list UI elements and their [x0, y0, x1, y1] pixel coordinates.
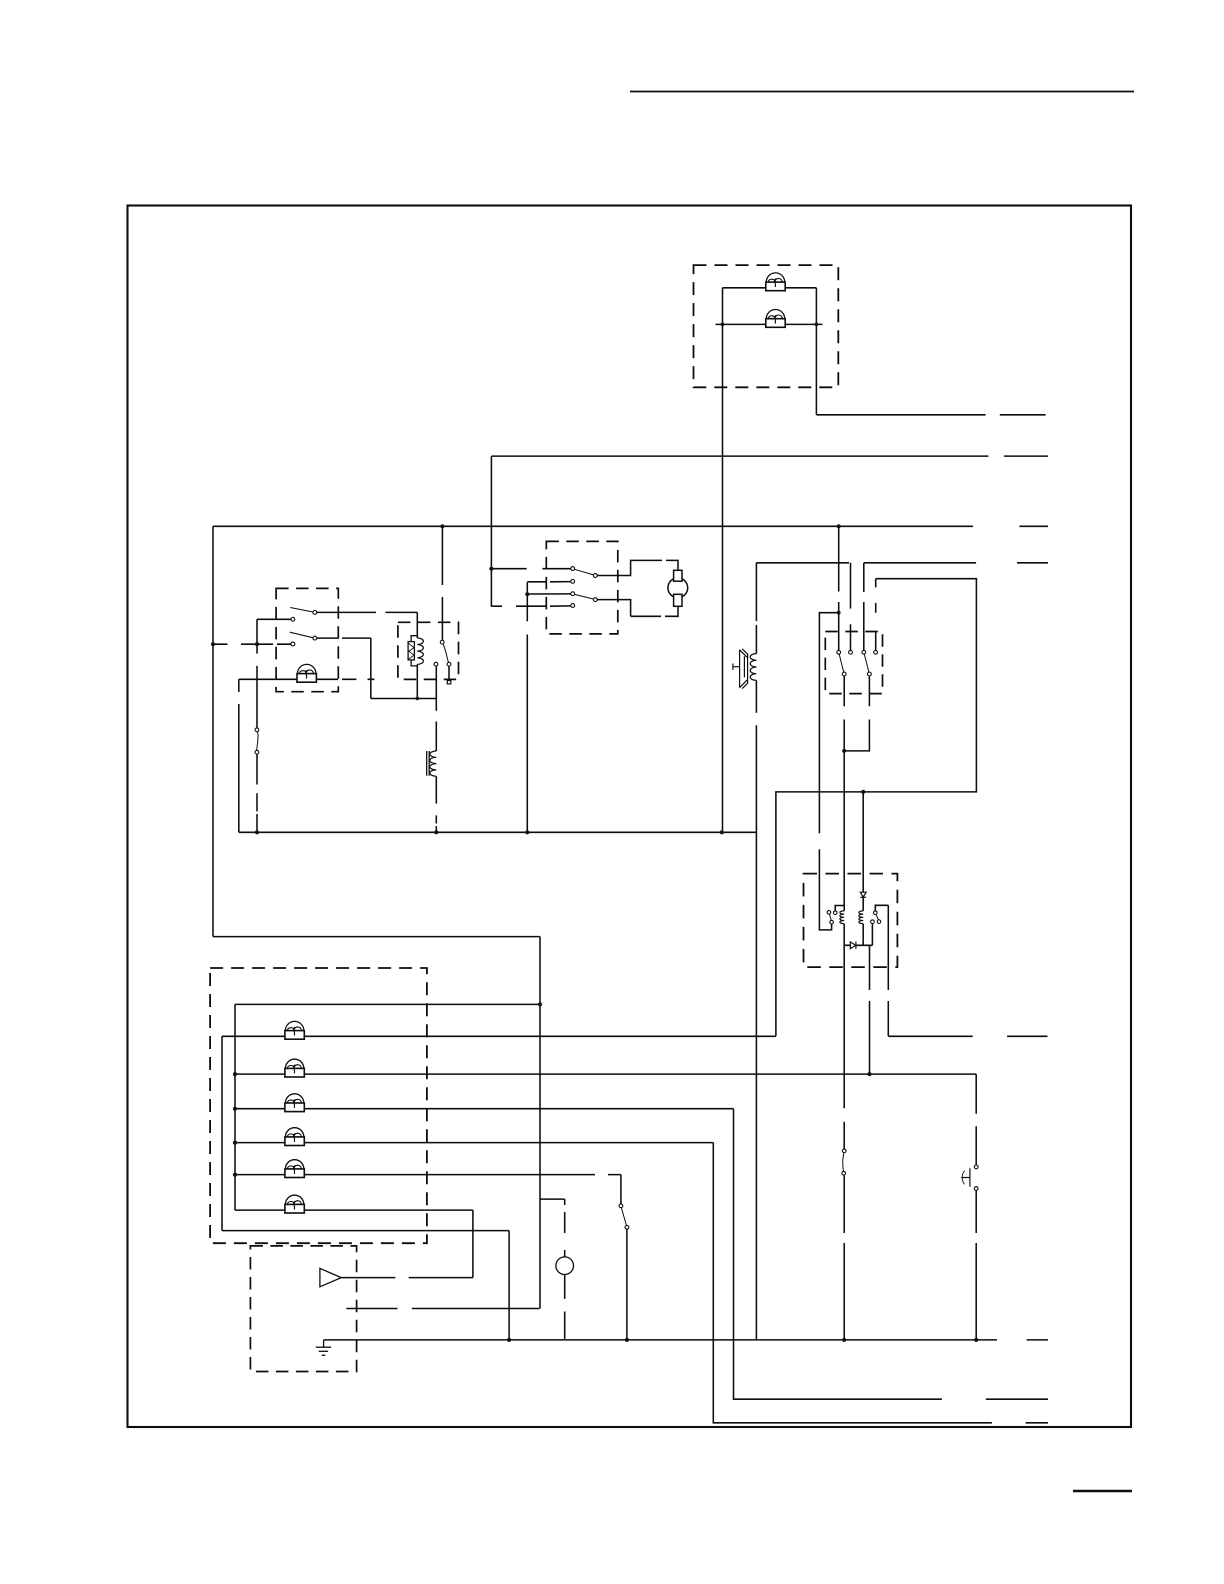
switch S2 lower contact	[255, 750, 259, 754]
wire: motor switch contact 2 feed	[527, 581, 570, 583]
node: junction row3 / relay feed	[440, 524, 444, 528]
wire: vertical drop from row 2 to motor switch feed	[490, 456, 492, 606]
wire: continuation stub row 3	[1019, 525, 1048, 527]
wire: lamp wire 4 drop and run to connector	[734, 1109, 942, 1400]
flasher right moving contact	[871, 920, 875, 924]
node: junction row3 / contact box feed	[837, 524, 841, 528]
ground symbol	[316, 1340, 331, 1355]
contact blade A	[839, 654, 844, 672]
wire: flasher output right leg down	[887, 905, 889, 1036]
wire: loop bus of flasher rectangle	[776, 579, 977, 1037]
wire: lower distribution bus	[239, 831, 757, 833]
flasher coil L2	[859, 911, 863, 924]
footer rule	[1073, 1490, 1132, 1492]
wire: contact 2/3 link vertical then return to bus	[526, 582, 528, 832]
wire: diode row up to right moving contact	[871, 924, 873, 946]
relay K1 second lower contact	[434, 662, 438, 666]
wire: S1B fixed contact feed from left bus (faded dashes)	[213, 643, 291, 645]
wire: cluster left bus A	[234, 1004, 236, 1210]
switch S4 blade	[843, 1153, 844, 1172]
wire: blade A to motor top	[597, 560, 678, 575]
switch S3 fixed contact 1	[571, 567, 575, 571]
directional contact dashed enclosure	[825, 632, 882, 694]
switch S3 blade B contact	[593, 598, 597, 602]
contact blade C output	[868, 672, 872, 676]
amplifier A1 triangle	[320, 1268, 341, 1286]
wire: bottom common bus	[324, 1339, 997, 1341]
node: junction bus A / wire 6	[233, 1173, 237, 1177]
switch S4 lower contact	[842, 1171, 846, 1175]
wire: left bus vertical	[212, 526, 214, 936]
contact blade A output	[842, 672, 846, 676]
node: junction A drop / branch to coil line	[837, 611, 841, 615]
node: junction bus A / wire 4	[233, 1107, 237, 1111]
wire: flasher pilot leg down to turn bus	[869, 945, 871, 1074]
node: junction bus A / wire 3	[233, 1072, 237, 1076]
wire: continuation stub flasher output	[1007, 1035, 1047, 1037]
gauge G1 body	[556, 1257, 574, 1275]
wire: lamp wire 4	[235, 1108, 734, 1110]
wire: transformer primary lead	[435, 699, 437, 752]
flasher right pivot contact	[874, 911, 878, 915]
switch S2 blade	[257, 732, 258, 751]
wire: top lamp branch upper	[723, 287, 817, 289]
wire: contact D drop	[875, 579, 877, 651]
node: left junction on lower lamp branch	[721, 323, 725, 327]
wire: horn button to bottom bus	[975, 1190, 977, 1340]
wire: continuation stub wire 5	[1026, 1422, 1048, 1424]
wire: continuation stub row 4	[1017, 562, 1048, 564]
flasher right lower contact	[877, 920, 881, 924]
wire: lamp wire 6 drop to switch S6	[620, 1175, 622, 1204]
wire: motor switch contact 4 feed	[491, 605, 570, 607]
relay K1 coil winding	[417, 638, 423, 665]
motor B1 body	[668, 578, 688, 598]
wire: flasher load leg down (L1 line) with hop gaps	[843, 945, 845, 1149]
switch S3 fixed contact 4	[571, 604, 575, 608]
wire: flasher output to connector row	[888, 1035, 972, 1037]
wire: S1A output to relay K1 coil	[317, 611, 418, 613]
flasher diode CR2 (pointing right)	[850, 942, 856, 949]
gauge branch tee from instrument feed	[540, 1199, 565, 1257]
flasher left coil-side contact	[833, 911, 837, 915]
wire: vertical feed with panel switch S2	[256, 619, 258, 728]
switch S1B fixed contact	[291, 642, 295, 646]
lamp DS7 (cluster lamp 4)	[285, 1128, 304, 1146]
switch S3 blade A	[575, 569, 594, 575]
wire: panel lamp branch	[239, 678, 375, 680]
node: junction wire 8 drop / bottom bus	[507, 1338, 511, 1342]
node: junction bus / motor switch return	[525, 830, 529, 834]
wire: S1B output run	[317, 637, 371, 639]
wire: relay upper contact feed from row 3	[441, 526, 443, 640]
lamp DS4 (cluster lamp 1)	[285, 1021, 304, 1039]
wire: relay coil top lead	[416, 612, 418, 638]
lamp DS2 (lower clearance lamp)	[766, 310, 785, 328]
node: junction bus / lamp box vertical	[720, 830, 724, 834]
contact A fixed	[837, 650, 841, 654]
light switch dashed enclosure S1	[276, 588, 338, 691]
wire: S1B output drop	[370, 638, 372, 698]
lamp DS8 (cluster lamp 5)	[285, 1160, 304, 1178]
wire: amplifier auxiliary output	[346, 1308, 539, 1310]
wire: cluster left bus B	[221, 1036, 223, 1230]
switch S6 lower contact	[625, 1225, 629, 1229]
node: junction on feed drop	[489, 567, 493, 571]
header rule	[630, 91, 1134, 93]
wire: panel lamp drop to bus corner	[238, 679, 240, 832]
flasher left points: pivot contact	[827, 911, 831, 915]
switch S3 blade A contact	[593, 574, 597, 578]
node: junction S6 line / bottom bus	[625, 1338, 629, 1342]
switch S4 upper contact	[842, 1149, 846, 1153]
wire: feed line row 2	[491, 455, 988, 457]
wire: coil-side contact link to L1 top	[835, 906, 844, 911]
wire: blade C output drop and tie	[844, 676, 869, 751]
lamp DS3 (panel lamp)	[297, 664, 316, 682]
relay K1 terminal stud	[447, 681, 451, 684]
flasher right points blade	[876, 914, 879, 920]
node: junction bus A / wire 5	[233, 1141, 237, 1145]
wire: contact to terminal stud	[448, 666, 450, 680]
contact B fixed	[849, 650, 853, 654]
wire: lamp wire 8	[222, 1230, 509, 1232]
node: junction coil lead / transformer link	[416, 697, 420, 701]
relay K1 dashed enclosure	[398, 622, 459, 679]
switch S1A moving contact	[313, 611, 317, 615]
node: junction loop bus / flasher feed	[861, 790, 865, 794]
wire: blade A output drop	[843, 676, 845, 751]
wire: combined output down into flasher coil L1	[843, 751, 845, 911]
node: junction left bus / S1B feed	[211, 642, 215, 646]
switch S3 blade B	[575, 594, 594, 599]
node: junction bus / transformer lead	[434, 830, 438, 834]
wire: contact box feed A drop	[838, 526, 840, 650]
node: junction lamp wire 1 end	[538, 1002, 542, 1006]
relay K1 core (rect with chevrons)	[408, 636, 417, 666]
relay K1 blade	[443, 644, 448, 662]
motor B1 lower brush terminal	[674, 594, 682, 606]
wire: continuation stub row 2	[1004, 455, 1048, 457]
wire: contact box feed C drop	[863, 563, 865, 651]
schematic border frame	[128, 206, 1132, 1428]
wire: horn feed horizontal (right segment)	[864, 562, 976, 564]
wire: coil L2 lower lead	[862, 924, 864, 946]
transformer T1 core bars	[426, 751, 428, 776]
wire: lamp wire 7	[235, 1209, 473, 1211]
lamp DS5 (cluster lamp 2)	[285, 1059, 304, 1077]
horn H1 coil	[750, 654, 756, 681]
wire: blade B to motor bottom	[597, 600, 678, 617]
wire: horizontal run to instrument feed	[213, 936, 540, 938]
lamp DS1 (upper clearance lamp)	[766, 273, 785, 291]
node: right junction on lower lamp branch	[815, 323, 819, 327]
wire: lamp wire 6	[235, 1174, 621, 1176]
flasher unit dashed enclosure K2	[804, 874, 898, 968]
wire: S4 to bottom bus	[843, 1175, 845, 1340]
wire: continuation stub wire 4	[986, 1398, 1048, 1400]
node: junction S2 line / bus	[255, 830, 259, 834]
node: junction S2 line / S1B feed	[255, 642, 259, 646]
instrument cluster dashed enclosure	[210, 968, 427, 1243]
switch S6 blade	[621, 1208, 626, 1226]
wire: right pivot link to output	[875, 905, 888, 911]
wire: lamp wire 8 drop to bottom bus	[508, 1231, 510, 1340]
wire: diode row	[844, 944, 872, 946]
wire: second contact down to transformer	[435, 666, 437, 698]
flasher left points blade	[830, 914, 832, 920]
pushbutton S5 lower contact	[974, 1187, 978, 1191]
wire: contact box feed B drop	[850, 563, 852, 651]
wire: lamp box right vertical down to feed line	[815, 288, 817, 415]
switch S1B moving contact	[313, 636, 317, 640]
wire: S2 lower contact down to bus	[256, 754, 258, 832]
switch S1A upper blade	[290, 608, 313, 613]
wire: main horizontal bus row 3	[213, 525, 973, 527]
pushbutton S5 upper contact	[974, 1165, 978, 1169]
wire: horn lower lead down to bottom bus	[755, 680, 757, 1340]
wire: continuation stub bottom bus	[1027, 1339, 1048, 1341]
wire: diode to coil L2	[862, 897, 864, 911]
node: junction contact3 branch	[525, 592, 529, 596]
lamp DS6 (cluster lamp 3)	[285, 1094, 304, 1112]
pushbutton S5 actuator	[961, 1168, 970, 1186]
switch S1A fixed contact	[291, 617, 295, 621]
clearance lamp assembly dashed enclosure	[694, 265, 839, 387]
node: junction blade outputs	[842, 749, 846, 753]
switch S6 upper contact	[619, 1204, 623, 1208]
wire: branch from A to flasher switch line	[819, 613, 838, 930]
wire: lamp wire 3 long run	[235, 1073, 976, 1075]
contact blade C	[864, 654, 869, 672]
flasher diode CR1 (pointing down)	[860, 892, 866, 897]
wire: S1A fixed contact feed	[257, 618, 291, 620]
wire: lamp wire 7 drop to amplifier output	[472, 1210, 474, 1278]
motor switch dashed enclosure S3	[546, 541, 618, 634]
wire: S6 to bottom bus	[626, 1229, 628, 1340]
wire: link to transformer primary	[371, 698, 437, 700]
switch S1B lower blade	[290, 632, 313, 638]
wire: motor switch contact 1 feed	[493, 568, 571, 570]
horn H1 projector	[733, 649, 748, 689]
relay K1 lower contact (to terminal)	[447, 662, 451, 666]
wire: transformer lower lead to bus	[435, 776, 437, 832]
wire: continuation stub row 1	[1000, 414, 1046, 416]
wire: lamp wire 1	[235, 1003, 540, 1005]
node: junction S4 line / bottom bus	[842, 1338, 846, 1342]
amplifier dashed enclosure A1	[250, 1246, 356, 1372]
transformer T1 winding	[430, 751, 437, 776]
flasher coil L1	[840, 911, 844, 924]
relay K1 upper contact	[440, 640, 444, 644]
wire: instrument feed vertical	[539, 937, 541, 1309]
node: junction pilot leg / lamp wire 3	[867, 1072, 871, 1076]
wire: lamp wire 2 (turn pilot)	[222, 1035, 776, 1037]
motor B1 upper brush terminal	[674, 570, 682, 581]
wire: horn upper lead	[755, 563, 757, 654]
wire: gauge lower lead dashes to bottom bus	[564, 1275, 566, 1339]
contact C fixed	[862, 650, 866, 654]
switch S3 fixed contact 2	[571, 580, 575, 584]
wire: top lamp branch lower (with end overhangs)	[716, 323, 823, 325]
wire: motor switch contact 3 feed	[527, 593, 570, 595]
wire: feed line to right connector (row 1)	[816, 414, 985, 416]
wire: lamp wire 5	[235, 1142, 713, 1144]
wire: horn feed horizontal (left segment)	[756, 562, 849, 564]
contact D fixed	[874, 650, 878, 654]
wire: flasher feed drop with diode	[862, 792, 864, 892]
switch S3 fixed contact 3	[571, 592, 575, 596]
wire: coil L1 lower lead to diode row	[843, 924, 845, 946]
wire: lamp wire 5 drop and run to connector	[713, 1143, 992, 1423]
flasher left points moving contact	[830, 920, 834, 924]
switch S2 upper contact	[255, 728, 259, 732]
wire: relay coil bottom lead	[416, 664, 418, 698]
lamp DS9 (cluster lamp 6)	[285, 1195, 304, 1213]
node: junction horn button line / bottom bus	[974, 1338, 978, 1342]
wire: long vertical from lamp box left down to lower bus	[722, 288, 724, 833]
wire: drop to horn button	[975, 1074, 977, 1165]
wire: amplifier output	[341, 1277, 473, 1279]
